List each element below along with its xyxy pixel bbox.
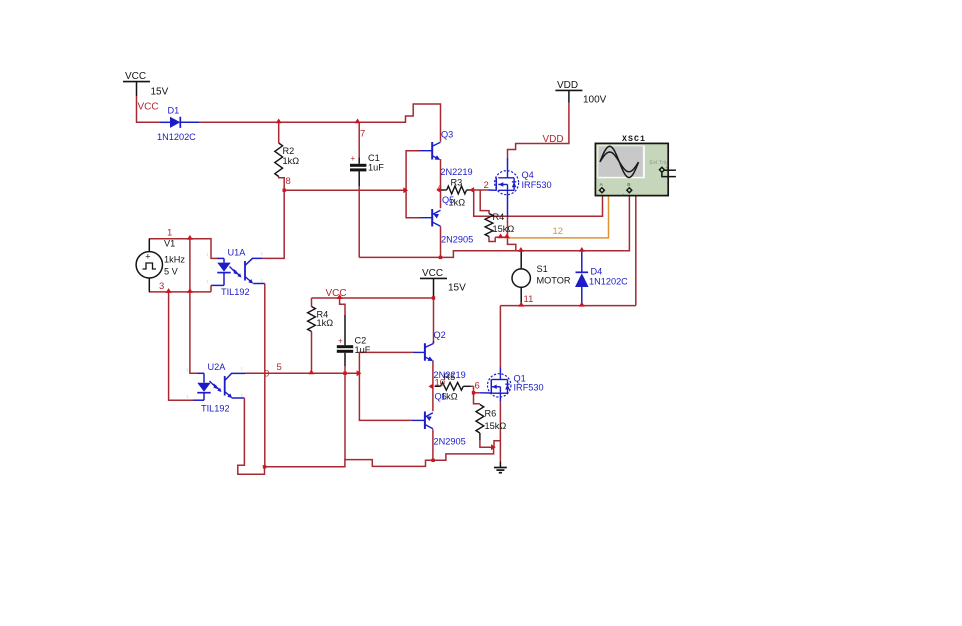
svg-text:1N1202C: 1N1202C [589, 276, 628, 286]
svg-text:R2: R2 [283, 146, 295, 156]
svg-text:+: + [623, 193, 626, 198]
svg-text:100V: 100V [583, 95, 607, 106]
svg-text:+: + [145, 251, 150, 261]
svg-text:15kΩ: 15kΩ [493, 224, 515, 234]
svg-text:+: + [338, 337, 343, 346]
svg-text:VDD: VDD [557, 80, 578, 91]
svg-text:1kΩ: 1kΩ [317, 318, 334, 328]
svg-text:15kΩ: 15kΩ [485, 421, 507, 431]
svg-text:1: 1 [167, 227, 172, 238]
svg-text:15V: 15V [151, 87, 169, 98]
svg-text:Q3: Q3 [441, 129, 453, 139]
svg-text:1uF: 1uF [368, 163, 384, 173]
svg-text:S1: S1 [537, 264, 548, 274]
svg-text:8: 8 [286, 176, 291, 187]
svg-text:TIL192: TIL192 [201, 404, 230, 414]
svg-text:+: + [666, 165, 669, 170]
svg-text:U2A: U2A [208, 362, 227, 372]
svg-text:VCC: VCC [125, 71, 146, 82]
svg-text:6: 6 [475, 381, 480, 392]
svg-text:10: 10 [435, 378, 446, 389]
svg-text:IRF530: IRF530 [522, 180, 552, 190]
svg-text:VCC: VCC [326, 288, 347, 299]
svg-text:1kHz: 1kHz [164, 255, 185, 265]
svg-text:IRF530: IRF530 [514, 383, 544, 393]
svg-text:2N2905: 2N2905 [441, 235, 473, 245]
svg-text:12: 12 [553, 226, 564, 237]
svg-text:11: 11 [524, 294, 534, 305]
svg-text:Q4: Q4 [522, 170, 534, 180]
svg-text:1kΩ: 1kΩ [283, 156, 300, 166]
svg-text:+: + [351, 154, 356, 163]
svg-text:5 V: 5 V [164, 267, 179, 277]
svg-text:MOTOR: MOTOR [537, 276, 571, 286]
svg-text:15V: 15V [448, 283, 466, 294]
svg-text:2N2905: 2N2905 [434, 437, 466, 447]
svg-text:R6: R6 [485, 409, 497, 419]
svg-text:U1A: U1A [228, 248, 247, 258]
svg-text:5: 5 [277, 362, 282, 373]
svg-text:VCC: VCC [138, 102, 159, 113]
svg-text:Q6: Q6 [435, 392, 447, 402]
svg-text:TIL192: TIL192 [221, 287, 250, 297]
svg-text:VCC: VCC [422, 268, 443, 279]
svg-text:XSC1: XSC1 [622, 135, 646, 144]
svg-text:1N1202C: 1N1202C [157, 132, 196, 142]
svg-text:2: 2 [484, 180, 489, 191]
svg-text:4: 4 [437, 183, 442, 194]
svg-text:7: 7 [360, 128, 365, 139]
svg-text:1uF: 1uF [355, 345, 371, 355]
svg-text:B: B [627, 182, 630, 188]
svg-text:C1: C1 [368, 153, 380, 163]
svg-text:V1: V1 [164, 239, 175, 249]
svg-text:D1: D1 [168, 106, 180, 116]
svg-text:Q2: Q2 [434, 330, 446, 340]
svg-text:3: 3 [159, 281, 164, 292]
svg-text:2N2219: 2N2219 [440, 167, 472, 177]
svg-text:0: 0 [264, 368, 269, 379]
svg-text:Q5: Q5 [442, 195, 454, 205]
svg-text:R3: R3 [451, 178, 463, 188]
svg-text:+: + [597, 193, 600, 198]
svg-text:D4: D4 [591, 266, 603, 276]
svg-text:R4: R4 [493, 212, 505, 222]
